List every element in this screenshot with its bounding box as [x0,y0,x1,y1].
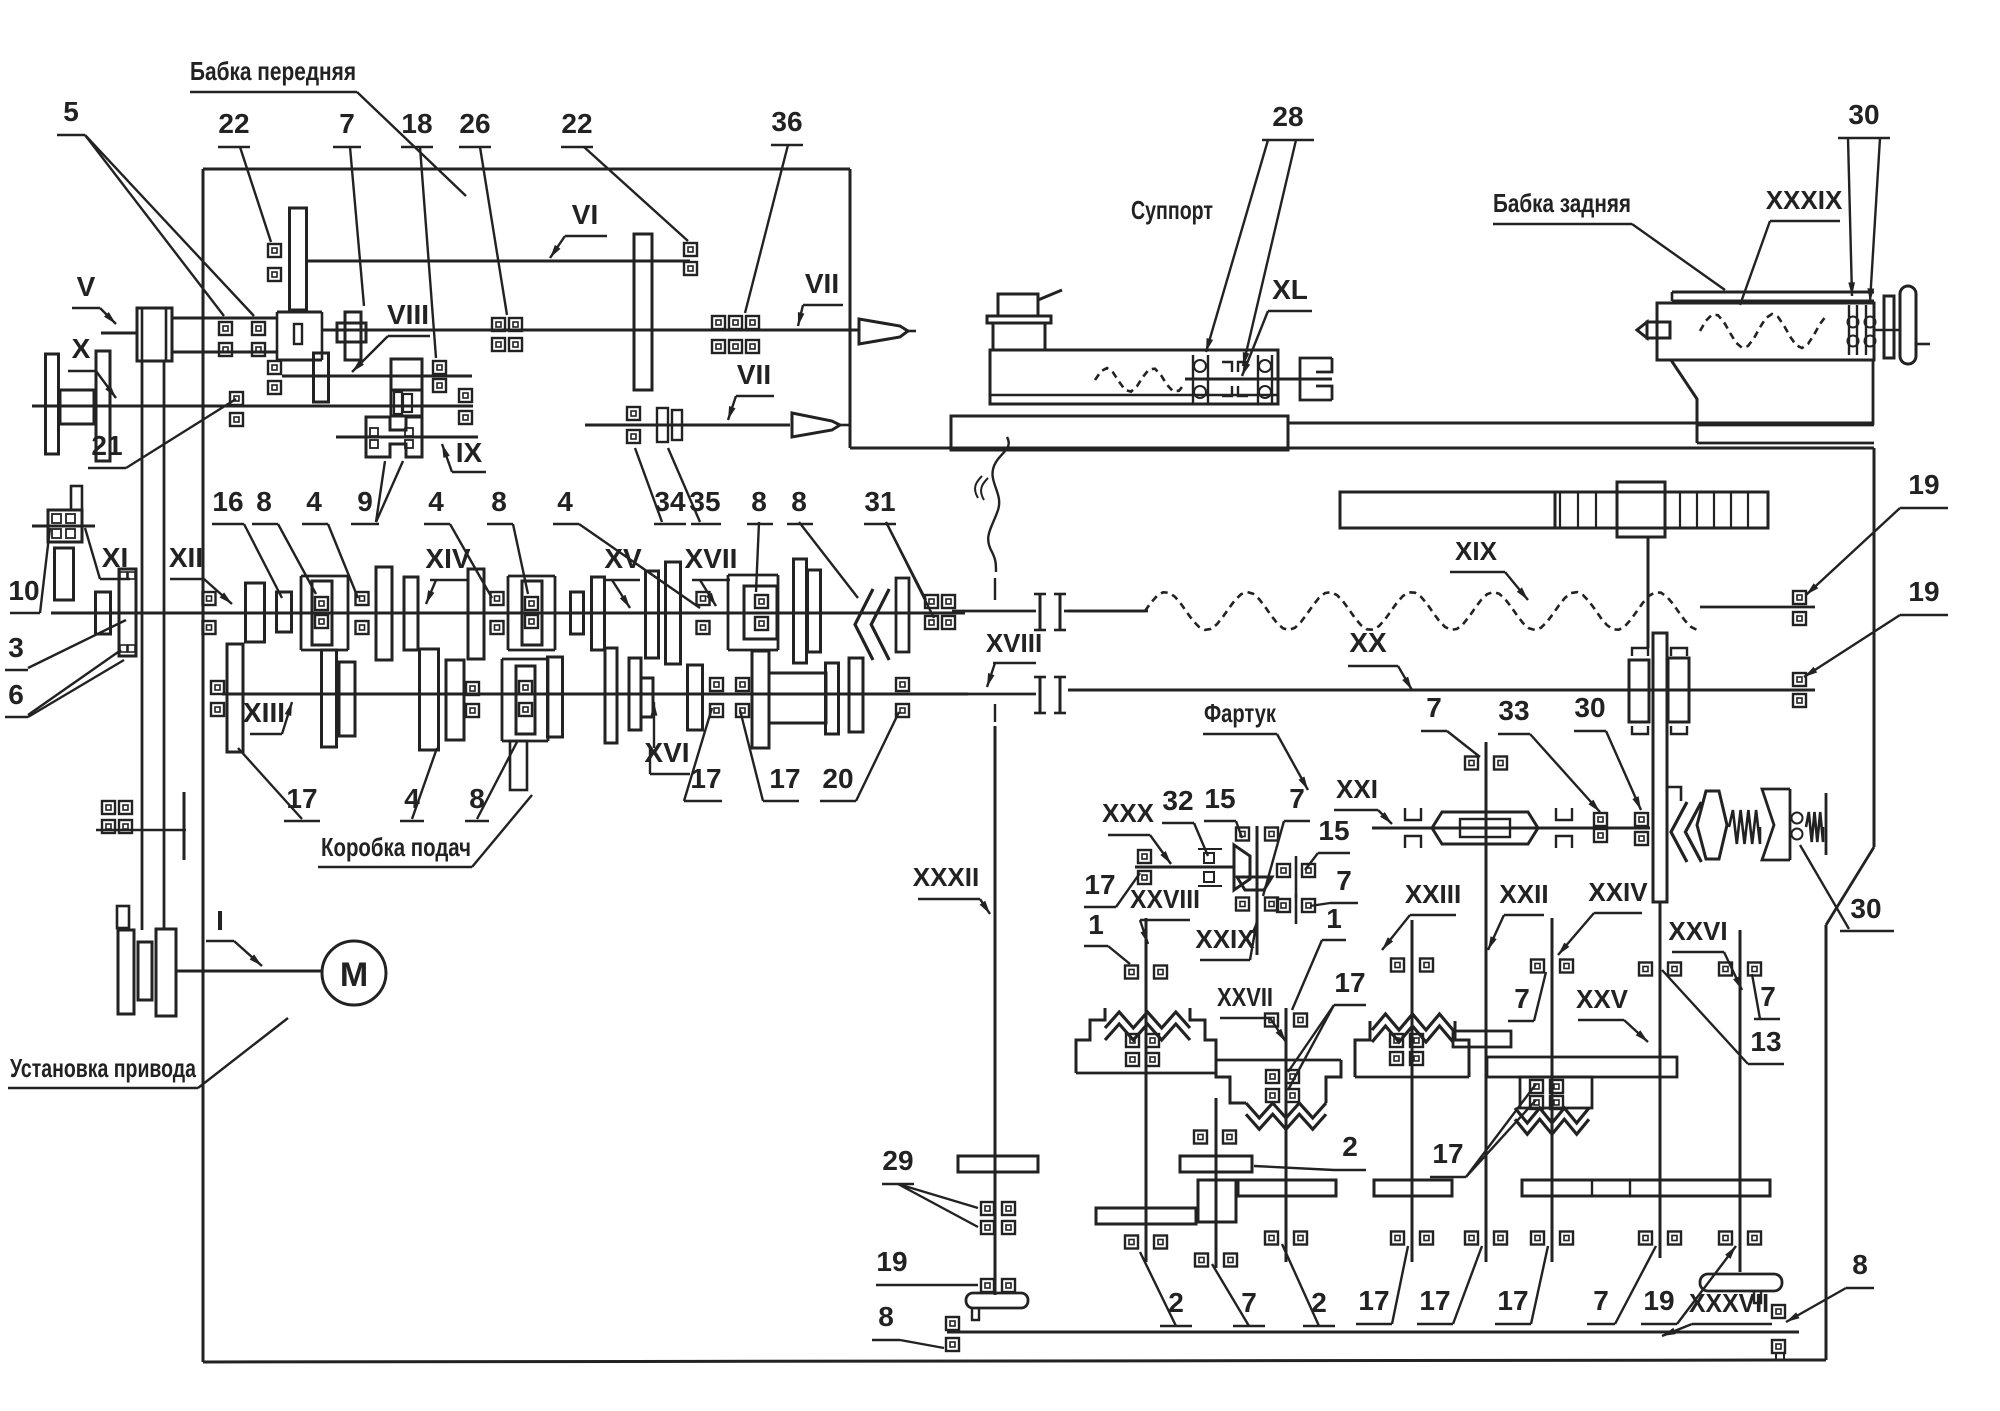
bearing 8 left lower [946,1338,959,1351]
gear XII g3 [404,577,418,650]
shaft XL [1185,378,1332,381]
svg-text:7: 7 [1426,692,1442,723]
bearing 17e upper [736,678,749,691]
gear XIII g10 [849,658,863,732]
svg-text:4: 4 [404,783,420,814]
vertical link rack to XX gear [1647,537,1650,648]
long gear sleeve on XXV vertical [1653,633,1667,902]
bearing 17e lower [736,704,749,717]
tailstock top plate [1672,291,1874,294]
bearing XIII left upper [211,681,224,694]
bearing XIII left lower [211,703,224,716]
shaft XXXVII [947,1331,1799,1334]
gear XIII g5 [446,660,464,740]
shaft XXV [1659,902,1662,1258]
bearing VIII right lower [433,379,446,392]
spindle body narrow section [172,317,277,320]
shaft XXI [1372,827,1650,830]
bearing 19 bottom XXVI [1719,1232,1732,1245]
svg-text:36: 36 [771,106,802,137]
bearing 17 on XXX lower [1138,871,1151,884]
herringbone XXIII [1372,1014,1453,1030]
overload clutch hexagon [1697,791,1727,859]
svg-text:VII: VII [737,359,771,390]
shaft XXVII [1285,1008,1288,1262]
bearing on VI right upper [684,243,697,256]
bearings 29 on XXXII [981,1202,994,1215]
sliding cluster 1 on XII (bracket) [301,576,348,650]
bearing 19 on XXXII [981,1279,994,1292]
svg-text:XXIX: XXIX [1195,924,1255,954]
svg-text:X: X [72,333,91,364]
herringbone XXVIII [1105,1012,1190,1028]
break line tick lower [994,704,996,722]
feed rack bar striped part [1555,492,1768,528]
bearing 19a upper [1793,591,1806,604]
detent bar below XIII cluster [510,741,527,790]
bearing 34 lower [627,430,640,443]
bearing 21 on X lower [230,413,243,426]
svg-text:XXII: XXII [1499,879,1548,909]
handwheel bracket [1884,296,1894,358]
bearing X right lower [459,411,472,424]
overload clutch spring [1729,810,1760,844]
block inner sleeve a [394,392,402,414]
svg-text:33: 33 [1498,695,1529,726]
handwheel [1900,286,1916,364]
svg-text:XXXII: XXXII [913,862,979,892]
link bar XXIII to XXII [1453,1031,1511,1047]
tailstock quill [1647,322,1670,338]
svg-text:I: I [216,905,224,936]
svg-text:20: 20 [822,763,853,794]
svg-text:8: 8 [751,486,767,517]
svg-text:7: 7 [1514,983,1530,1014]
toolpost top box [998,294,1038,316]
gear bar on XXVII [1238,1180,1336,1196]
rack centre block [1617,482,1665,537]
double gear block VIII-X lower [391,390,422,416]
svg-text:Суппорт: Суппорт [1131,195,1213,225]
bed upper line [1289,422,1874,425]
overload clutch right block [1762,789,1790,860]
bearing 17d upper [710,678,723,691]
gear XII g1 [246,583,265,642]
clutch housing on XXVIII [1076,1008,1105,1073]
toolpost plate [987,316,1051,323]
svg-text:8: 8 [791,486,807,517]
spindle nose recess [294,324,302,344]
svg-text:16: 16 [212,486,243,517]
bearing 19b upper [1793,673,1806,686]
spindle drive pulley [137,308,172,361]
svg-text:Фартук: Фартук [1204,698,1277,728]
svg-text:XX: XX [1349,627,1387,658]
sliding cluster 3 on XII (bracket) [728,575,778,650]
bearing group 31 on XII (2x2) [925,595,938,608]
svg-text:17: 17 [286,783,317,814]
frame bottom edge [203,1360,1826,1362]
bearing 24 a [102,801,115,814]
shaft VI [306,260,690,263]
svg-text:XV: XV [604,543,642,574]
svg-text:17: 17 [1334,967,1365,998]
bearing 7 bottom XXV [1639,1232,1652,1245]
svg-text:XXIII: XXIII [1405,879,1461,909]
gear XII g1 hub [277,592,292,632]
gear XIII g7b [641,678,653,717]
spindle bearing 5b lower [252,343,265,356]
break line arcs [975,476,982,498]
svg-text:XXV: XXV [1576,984,1629,1014]
foot bearing XXVI [1700,1274,1782,1291]
clutch end bar [1825,793,1828,855]
bearing 30b lower [1635,832,1648,845]
svg-text:17: 17 [1358,1285,1389,1316]
shaft XIII [222,693,968,696]
herringbone XXIV (down) [1515,1108,1589,1123]
break line tick upper [994,578,996,600]
svg-text:17: 17 [769,763,800,794]
svg-text:XI: XI [102,542,128,573]
gear XIII g4 [420,649,439,750]
motor M [322,941,386,1005]
bearing group 26 on V (2x2) [492,318,505,331]
gear XII g8 [666,562,681,664]
svg-text:19: 19 [1643,1285,1674,1316]
shaft XXXII [994,726,997,1295]
toolpost body [993,323,1045,350]
shaft V/VII axis [322,329,858,332]
svg-text:7: 7 [1241,1287,1257,1318]
svg-text:Установка привода: Установка привода [10,1053,196,1083]
svg-text:22: 22 [218,108,249,139]
svg-text:9: 9 [357,486,373,517]
svg-text:XXVIII: XXVIII [1130,884,1200,914]
gear XIII g6 [605,648,617,743]
svg-text:M: M [340,956,368,994]
svg-text:15: 15 [1204,783,1235,814]
frame right edge lower [1825,925,1828,1360]
sliding cluster 2 on XII (bracket) [508,576,555,650]
bearing on VI right lower [684,262,697,275]
svg-text:17: 17 [1432,1138,1463,1169]
shaft XXVIII [1145,918,1148,1262]
shaft XXXI [1215,1098,1218,1268]
svg-text:4: 4 [306,486,322,517]
bearing 19a lower [1793,612,1806,625]
shaft XII [51,612,965,615]
svg-text:7: 7 [1289,783,1305,814]
foot bearing XXXII [966,1293,1028,1308]
svg-text:7: 7 [1336,865,1352,896]
bearing on VI left lower [268,268,281,281]
svg-text:29: 29 [882,1145,913,1176]
bearing 19b lower [1793,694,1806,707]
tumbler bracket lower on IX [366,437,422,457]
large gear on X [96,351,110,461]
gear XII g9 [794,559,807,663]
svg-text:30: 30 [1574,692,1605,723]
bearing block on XI [48,510,82,542]
bearing on XXIII [1391,959,1404,972]
svg-text:Коробка подач: Коробка подач [321,832,471,862]
gear on VIII [314,353,329,402]
half-nut marks on XL [1222,362,1232,396]
gear XIII g5b [548,657,563,737]
feed rack bar plain part [1340,492,1555,528]
shaft XX [1068,689,1815,692]
bearing 2 bottom XXVII [1265,1232,1278,1245]
bearing 1 on XXVIII [1125,966,1138,979]
gear below XI [55,548,74,600]
svg-text:Бабка передняя: Бабка передняя [190,56,356,86]
bearing XXIX bottom [1236,898,1249,911]
gear on VI right (back gear) [634,234,652,390]
worm on XXI [1432,812,1538,844]
bearings 17 in XXVII housing [1266,1070,1279,1083]
svg-text:28: 28 [1272,101,1303,132]
bearing 20 lower [896,704,909,717]
herringbone clutch on XII [855,589,873,660]
gear marks 35 on VII lower [657,408,668,442]
tool [1038,290,1062,300]
coupling cross on spindle axis [345,312,361,360]
gear XIII g7 [629,658,641,730]
spindle body wide section [277,311,322,314]
svg-text:XVI: XVI [644,737,689,768]
bearing 21 on X upper [230,392,243,405]
carriage body [990,350,1278,404]
svg-text:17: 17 [1084,869,1115,900]
bearing 30b upper [1635,813,1648,826]
bearing 34 upper [627,407,640,420]
svg-text:7: 7 [1593,1285,1609,1316]
bearing 17 bottom XXIV [1531,1232,1544,1245]
gear XII g6 [592,577,605,650]
svg-text:32: 32 [1162,785,1193,816]
idler shaft 24 [96,829,186,832]
bearing 33 lower [1594,829,1607,842]
svg-text:8: 8 [491,486,507,517]
svg-text:Бабка задняя: Бабка задняя [1493,188,1631,218]
svg-text:XIX: XIX [1455,536,1498,566]
clutch housing on XXIII [1355,1021,1370,1077]
spindle V left stub [101,332,137,335]
svg-text:6: 6 [8,679,24,710]
svg-text:13: 13 [1750,1026,1781,1057]
bearing XII mid3 [697,592,710,605]
svg-text:1: 1 [1326,903,1342,934]
svg-text:19: 19 [876,1246,907,1277]
headstock right edge [849,169,852,448]
frame top edge (headstock) [203,168,850,171]
bearing on VI left upper [268,244,281,257]
svg-text:19: 19 [1908,576,1939,607]
spindle bearing 5a upper [219,322,232,335]
bearing 24 c [102,820,115,833]
bearing VIII right upper [433,361,446,374]
svg-text:8: 8 [1852,1249,1868,1280]
spring wave in carriage (cross-feed screw) [1095,368,1185,392]
svg-text:8: 8 [878,1301,894,1332]
svg-text:8: 8 [256,486,272,517]
bearing 7 on XXVI [1719,963,1732,976]
bearing on XXXI top [1194,1131,1207,1144]
bearing 1 on XXVII top [1265,1014,1278,1027]
hub on X [60,390,94,424]
svg-text:7: 7 [339,108,355,139]
motor pulley cluster [117,906,129,928]
bevel pinion on XXX [1234,845,1250,890]
bearing XIII mid-left lower [466,704,479,717]
bearing columns XL left [1192,355,1194,403]
tumbler bracket upper on IX [366,417,422,437]
shaft X [32,405,473,408]
XIX shaft left of wave [1068,610,1145,613]
frame right diagonal [1826,847,1874,925]
bearing XII mid [356,592,369,605]
shaft XXIX vertical [1256,826,1259,955]
bearings 17 in XXVIII housing [1126,1034,1139,1047]
svg-text:XIV: XIV [425,543,470,574]
gear XII g2 [376,567,392,660]
bearing group 36 on VII (3x2) [712,316,725,329]
gear cluster on XX at rack link [1629,660,1649,722]
bracket above XI block [71,486,82,510]
gear XIII g1 [227,644,243,752]
bearing XIII mid-left upper [466,682,479,695]
spindle bearing 5a lower [219,343,232,356]
leadscrew XIX wavy line [1145,592,1697,630]
svg-text:XXIV: XXIV [1588,877,1648,907]
svg-text:VIII: VIII [387,299,429,330]
shaft XXIV [1551,918,1554,1262]
double gear block VIII-X upper [391,359,422,390]
clutch housing on XXVII [1216,1059,1341,1062]
svg-text:XVIII: XVIII [986,628,1042,658]
bearing XII mid2 [491,592,504,605]
shaft VIII [282,375,472,378]
tall gear XIII g8 [752,651,769,748]
bearing 20 upper [896,678,909,691]
shaft XXIII [1411,920,1414,1262]
bevel crown on XXIX [1237,877,1272,890]
idler bracket bar [183,792,186,860]
overload clutch bearings [1792,813,1803,824]
svg-text:XXVII: XXVII [1217,982,1273,1012]
carriage saddle [951,416,1288,450]
bearing 17 bottom XXII [1465,1232,1478,1245]
svg-text:22: 22 [561,108,592,139]
tumbler pins [370,428,378,436]
overload clutch left chevrons [1671,802,1687,862]
gear on X far left [46,354,59,454]
bearing on XXV [1639,963,1652,976]
tailstock screw (wavy) [1700,314,1826,348]
shaft VII lower [585,424,790,427]
handwheel crank stub [1916,343,1930,346]
overload clutch spring 2 [1806,812,1823,842]
frame left edge [202,169,205,1362]
gear on VI left [290,208,307,310]
gear XII g10 [808,570,821,652]
bearing 8 left upper [946,1317,959,1330]
wide sleeve on XIII [769,673,826,723]
shaft XXII [1485,742,1488,1262]
svg-text:XII: XII [169,542,203,573]
bearing 33 upper [1594,813,1607,826]
svg-text:XXX: XXX [1102,798,1155,828]
svg-text:IX: IX [456,437,483,468]
bed lower line [850,447,1874,450]
bearing 2 bottom XXVIII [1125,1236,1138,1249]
belt line right [163,361,166,930]
bearings 17 in XXIII housing [1390,1034,1403,1047]
svg-text:XIII: XIII [243,697,285,728]
gear bar on XXVIII [1096,1208,1196,1224]
svg-text:26: 26 [459,108,490,139]
svg-text:1: 1 [1088,909,1104,940]
shaft I [176,970,322,973]
block on XXIV [1520,1077,1592,1108]
gear XIII g7c [688,665,703,730]
herringbone XXVII (down) [1246,1103,1326,1118]
svg-text:21: 21 [91,430,122,461]
svg-text:35: 35 [689,486,720,517]
sliding cluster on XIII (bracket) [502,659,548,741]
svg-text:XXXIX: XXXIX [1766,185,1843,215]
bearings 17 in XXIV block [1530,1080,1543,1093]
dead centre cone on VII lower [792,413,840,437]
bearing 7 on XXII [1465,757,1478,770]
dead centre cone on VII [859,319,908,344]
svg-text:V: V [77,271,96,302]
gear XIII g2 [322,650,337,747]
gear XII g5 [571,592,584,634]
svg-text:VII: VII [805,268,839,299]
tailstock bearing columns [1848,305,1850,355]
bracket at XL right end [1300,358,1332,400]
bearing XXIX top [1236,828,1249,841]
bearing 8 right with hatches [1772,1305,1785,1318]
svg-text:17: 17 [1419,1285,1450,1316]
clutch jaws XXI left [1405,808,1421,820]
coupling on XX row [1039,677,1042,713]
coupling on XIX row [1039,594,1042,630]
gear XIII g3 [339,662,355,736]
svg-text:5: 5 [63,96,79,127]
bearing 24 b [119,801,132,814]
svg-text:15: 15 [1318,815,1349,846]
bearing 17 bottom XXIII [1391,1232,1404,1245]
svg-text:18: 18 [401,108,432,139]
shaft IX [336,436,478,439]
stub shaft with bearings 15/7 [1295,856,1298,898]
adjuster 32 [1204,853,1214,863]
block on XXXI [1198,1180,1236,1222]
spindle bearing 5b upper [252,322,265,335]
gear XII g7 [646,571,659,658]
gear bar on XXXI [1180,1156,1252,1172]
svg-text:XVII: XVII [685,543,738,574]
bearing VIII left upper [268,361,281,374]
XIX shaft right of wave [1700,606,1815,609]
belt line left [141,361,144,930]
bearing 17 on XXX upper [1138,850,1151,863]
block inner sleeve b [403,394,412,412]
tailstock body [1671,360,1697,443]
